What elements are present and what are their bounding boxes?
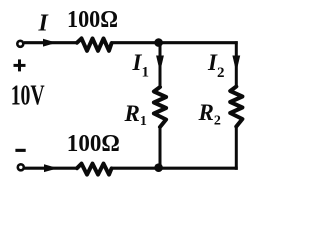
current arrow (bottom wire, pointing right) bbox=[44, 164, 58, 172]
svg-text:100Ω: 100Ω bbox=[67, 7, 118, 33]
label − (source polarity) bbox=[15, 149, 25, 152]
node (top junction dot) bbox=[154, 38, 163, 47]
resistor R2 (vertical zigzag) bbox=[230, 87, 242, 127]
current arrow I (on top wire) bbox=[43, 39, 57, 47]
terminal − (bottom-left open circle) bbox=[18, 164, 24, 170]
svg-text:10V: 10V bbox=[11, 79, 45, 111]
wire (right branch, corner down to R2 zigzag) bbox=[235, 41, 238, 87]
resistor R1 (vertical zigzag) bbox=[154, 87, 166, 127]
terminal + (top-left open circle) bbox=[17, 41, 23, 47]
node (bottom junction dot) bbox=[154, 163, 163, 172]
resistor 100Ω (bottom, zigzag) bbox=[77, 164, 112, 175]
wire (R1 bottom to bottom rail) bbox=[159, 127, 162, 169]
wire (R1 branch, junction down to zigzag) bbox=[159, 43, 162, 88]
wire (top: resistor to right corner) bbox=[111, 41, 238, 44]
resistor 100Ω (top, zigzag) bbox=[77, 38, 112, 50]
wire (bottom: resistor to right corner) bbox=[111, 167, 238, 170]
current arrow I2 bbox=[232, 56, 240, 73]
svg-text:I: I bbox=[38, 11, 50, 37]
wire (R2 bottom to bottom-right corner) bbox=[235, 126, 238, 170]
wire (bottom: terminal to 100Ω resistor) bbox=[24, 167, 78, 170]
label + (source polarity) bbox=[14, 59, 26, 71]
wire (top: terminal to 100Ω resistor) bbox=[24, 41, 78, 44]
svg-text:100Ω: 100Ω bbox=[67, 131, 120, 157]
current arrow I1 bbox=[156, 56, 164, 73]
